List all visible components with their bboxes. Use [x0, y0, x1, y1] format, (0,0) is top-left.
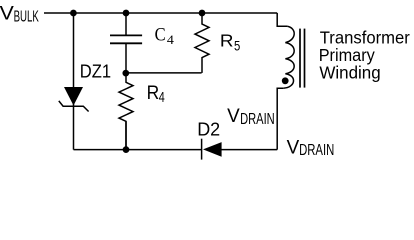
svg-text:DZ1: DZ1 [80, 60, 111, 81]
svg-text:V: V [0, 4, 14, 25]
wire DZ1 branch vertical [73, 13, 75, 150]
wire bottom left rail [74, 149, 202, 151]
svg-text:DRAIN: DRAIN [240, 111, 275, 128]
junction node top R5 [199, 10, 206, 17]
wire C4 bottom lead [125, 43, 127, 73]
svg-text:4: 4 [159, 89, 165, 106]
svg-text:D2: D2 [197, 119, 220, 139]
svg-text:BULK: BULK [14, 9, 39, 26]
wire bottom right segment (diode to VDRAIN corner) [222, 149, 278, 151]
transformer core lines [300, 29, 305, 88]
junction node top-left (VBULK / DZ1) [70, 10, 77, 17]
wire top rail VBULK [44, 12, 277, 14]
wire top-right corner to transformer [277, 13, 287, 26]
svg-text:V: V [227, 106, 240, 127]
svg-text:Winding: Winding [319, 64, 380, 83]
diode D2 cathode bar [201, 139, 203, 160]
wire R4 bottom lead [125, 121, 127, 149]
resistor R4 zigzag [119, 73, 133, 150]
wire middle rail (C4 bottom to R5 bottom) [126, 72, 202, 74]
junction node C4/R4 middle [122, 70, 129, 77]
svg-text:5: 5 [234, 38, 240, 53]
resistor R5 zigzag [195, 13, 209, 73]
junction node bottom R4 [123, 146, 130, 153]
transformer primary coil winding [283, 26, 294, 88]
svg-text:DRAIN: DRAIN [299, 142, 334, 159]
zener diode DZ1 triangle [64, 87, 83, 106]
transformer phase dot [282, 77, 289, 84]
svg-text:Transformer: Transformer [320, 29, 410, 48]
zener diode DZ1 cathode bar with bent ends [59, 101, 89, 112]
svg-text:R: R [220, 31, 234, 51]
wire C4 branch top lead [125, 13, 127, 35]
diode D2 triangle [203, 142, 222, 157]
svg-text:Primary: Primary [319, 46, 376, 65]
wire transformer bottom lead down to VDRAIN node [277, 88, 283, 149]
svg-text:C: C [155, 25, 166, 46]
svg-text:4: 4 [167, 32, 175, 47]
capacitor C4 plates [110, 35, 142, 43]
svg-text:V: V [287, 137, 300, 158]
svg-text:R: R [147, 83, 160, 104]
junction node top C4 [123, 10, 130, 17]
